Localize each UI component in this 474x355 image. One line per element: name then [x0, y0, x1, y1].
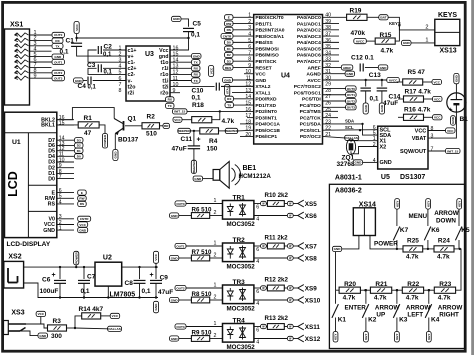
resistor R2 [125, 125, 142, 127]
net tag DALLAS [75, 327, 108, 330]
svg-text:PD0/RXD: PD0/RXD [255, 97, 277, 103]
svg-text:AGND: AGND [306, 72, 321, 78]
svg-text:R15: R15 [380, 32, 392, 39]
svg-text:0,1: 0,1 [81, 288, 90, 295]
svg-text:D1: D1 [77, 149, 81, 153]
svg-text:OUT0: OUT0 [176, 202, 185, 206]
svg-text:XTAL2: XTAL2 [255, 84, 270, 90]
svg-text:OUT1: OUT1 [176, 244, 185, 248]
svg-text:SDA: SDA [345, 119, 354, 124]
svg-text:R24: R24 [438, 238, 450, 245]
svg-text:1: 1 [248, 13, 251, 19]
svg-text:PD1/TXD: PD1/TXD [255, 103, 276, 109]
svg-text:2: 2 [119, 51, 122, 57]
svg-text:GND: GND [455, 74, 459, 82]
svg-text:R17 4.7k: R17 4.7k [405, 89, 432, 96]
optocoupler TR1 MOC3052 [223, 201, 254, 220]
svg-text:LEFT: LEFT [407, 312, 423, 319]
svg-text:4: 4 [59, 199, 62, 205]
svg-text:C8: C8 [125, 280, 134, 287]
svg-text:RIGHT: RIGHT [439, 312, 459, 319]
svg-text:U4: U4 [281, 73, 290, 80]
svg-text:OUT2: OUT2 [347, 99, 356, 103]
svg-text:XS6: XS6 [305, 213, 317, 220]
svg-text:6: 6 [119, 76, 122, 82]
svg-text:4.7k: 4.7k [438, 295, 451, 302]
net tags OUT0-OUT3 on U4 [323, 87, 346, 89]
net tag OUT2 opto input [175, 285, 186, 290]
net tag RX pin14 [225, 96, 234, 101]
svg-text:E: E [81, 191, 83, 195]
svg-text:D0: D0 [77, 155, 81, 159]
svg-text:Q1: Q1 [128, 116, 137, 123]
svg-text:KEY: KEY [395, 200, 399, 207]
svg-text:2: 2 [248, 19, 251, 25]
svg-text:BEEPER: BEEPER [192, 160, 196, 173]
svg-text:GND: GND [451, 116, 455, 124]
ground tag keypad [332, 246, 341, 251]
net tags on LCD control pins [78, 190, 87, 195]
IC U3 MAX232 [126, 46, 170, 101]
ground tag speaker [193, 176, 203, 181]
switch K3 [396, 289, 398, 291]
wire PD6 row [240, 135, 254, 137]
svg-text:4.7k: 4.7k [374, 295, 387, 302]
svg-text:r2i: r2i [128, 91, 135, 97]
capacitor C4 [74, 78, 84, 83]
svg-text:XS11: XS11 [305, 324, 321, 331]
U4 ADC stub wires [323, 23, 340, 25]
wire XTAL2 row [221, 85, 254, 87]
svg-text:R3: R3 [53, 318, 62, 325]
svg-text:510: 510 [146, 131, 157, 138]
svg-text:R16 4.7k: R16 4.7k [404, 107, 431, 114]
svg-text:v+: v+ [128, 54, 134, 60]
svg-text:VCC: VCC [154, 253, 158, 260]
net tag OUT0 opto input [175, 201, 186, 206]
svg-text:GND: GND [334, 247, 342, 251]
svg-text:1: 1 [425, 38, 428, 44]
net tags RX TX mid [166, 97, 175, 102]
svg-text:KEYS: KEYS [438, 12, 457, 19]
svg-text:R18: R18 [192, 102, 204, 109]
svg-text:1: 1 [119, 45, 122, 51]
svg-text:VCC: VCC [415, 128, 427, 134]
ground tag U5 pin4 [353, 160, 362, 165]
svg-text:24: 24 [325, 113, 331, 119]
svg-text:BKL1: BKL1 [41, 123, 55, 129]
svg-text:PC4/TDO: PC4/TDO [300, 103, 321, 109]
svg-text:POWER: POWER [374, 241, 398, 248]
connector XS6 [298, 212, 317, 220]
svg-text:4.7k: 4.7k [437, 254, 450, 261]
svg-text:16: 16 [173, 45, 179, 51]
svg-text:AREF: AREF [343, 66, 352, 70]
svg-text:5: 5 [248, 38, 251, 44]
svg-text:RW: RW [79, 197, 84, 201]
resistor R25 [403, 246, 423, 252]
svg-text:XS7: XS7 [305, 244, 317, 251]
svg-text:BD137: BD137 [118, 137, 139, 144]
connector XS9 [298, 285, 317, 293]
capacitor C9 47uF [155, 267, 157, 279]
svg-text:PB2/INT2/A0: PB2/INT2/A0 [255, 28, 284, 34]
svg-text:RS: RS [80, 202, 84, 206]
svg-text:15: 15 [59, 120, 65, 126]
net tags on LCD data pins [75, 138, 84, 143]
wire opto pin4 [254, 299, 288, 301]
power tag VCC vertical [153, 251, 158, 263]
svg-text:7: 7 [119, 82, 122, 88]
capacitor C11 [193, 131, 195, 146]
net tag VCC small [173, 117, 182, 122]
power tag POWER vertical [74, 251, 79, 264]
svg-text:+: + [150, 272, 154, 279]
svg-text:XTAL: XTAL [225, 86, 229, 94]
net tag INIT_15 [173, 109, 188, 114]
svg-text:6: 6 [256, 247, 259, 253]
resistor R14 [75, 316, 82, 328]
svg-text:KEY: KEY [427, 333, 431, 340]
svg-text:U5: U5 [381, 174, 390, 181]
resistor R19 [323, 16, 347, 18]
svg-text:6: 6 [256, 289, 259, 295]
net tag TX pin15 [225, 102, 234, 107]
wire ground rail [24, 283, 158, 298]
svg-text:5: 5 [119, 70, 122, 76]
svg-text:0,1: 0,1 [191, 32, 200, 39]
resistor R18 [182, 119, 192, 121]
svg-text:8: 8 [431, 126, 434, 132]
net tag OUT0 [52, 32, 65, 37]
svg-text:3: 3 [431, 134, 434, 140]
resistor R15 [354, 39, 367, 44]
svg-text:XTAL1: XTAL1 [255, 90, 270, 96]
svg-text:E: E [228, 16, 230, 20]
svg-text:6: 6 [248, 44, 251, 50]
wire matrix right side [456, 249, 462, 290]
svg-text:470k: 470k [351, 30, 366, 37]
svg-text:RW: RW [226, 22, 231, 26]
svg-text:RES: RES [225, 66, 231, 70]
svg-text:7: 7 [248, 50, 251, 56]
svg-text:12: 12 [245, 82, 251, 88]
connector XS8 [298, 255, 317, 263]
optocoupler TR3 MOC3052 [223, 285, 254, 304]
svg-text:AVCC: AVCC [356, 39, 365, 43]
svg-text:300: 300 [51, 333, 62, 340]
net tag BEEPER right [225, 128, 238, 133]
connector XS12 [298, 335, 321, 343]
svg-text:C1: C1 [66, 38, 75, 45]
svg-text:LM7805: LM7805 [110, 292, 136, 299]
resistor R11 2k2 [254, 245, 261, 247]
net tag TX [52, 43, 63, 48]
optocoupler TR4 MOC3052 [223, 324, 254, 343]
svg-text:SQW/OUT: SQW/OUT [400, 149, 427, 155]
wire BKL2 to Q1 collector [57, 108, 114, 120]
svg-text:R2: R2 [147, 114, 156, 121]
svg-text:36: 36 [325, 38, 331, 44]
svg-text:PC1/SDA: PC1/SDA [300, 122, 322, 128]
svg-text:XS13: XS13 [440, 48, 457, 55]
svg-text:PB1/T1: PB1/T1 [255, 21, 272, 27]
svg-text:150: 150 [207, 146, 218, 153]
svg-text:39: 39 [325, 19, 331, 25]
svg-text:2: 2 [214, 333, 217, 339]
resistor R6 510 [170, 213, 179, 218]
svg-text:KEY: KEY [426, 200, 430, 207]
crystal ZQ1 32768 [351, 141, 378, 143]
svg-text:K6: K6 [431, 227, 440, 234]
svg-text:K1: K1 [338, 317, 347, 324]
resistor R3 [48, 325, 67, 331]
svg-text:PC5/TDI: PC5/TDI [302, 97, 321, 103]
svg-text:4.7k: 4.7k [343, 295, 356, 302]
svg-text:BR: BR [164, 124, 169, 128]
net tag OUT1 [52, 59, 65, 64]
svg-text:AVCC: AVCC [389, 78, 398, 82]
svg-text:SCL: SCL [345, 125, 354, 130]
svg-text:C5: C5 [193, 21, 202, 28]
svg-text:LCD-DISPLAY: LCD-DISPLAY [7, 241, 51, 248]
svg-text:XS10: XS10 [305, 298, 321, 305]
svg-text:VCC: VCC [79, 223, 86, 227]
svg-text:0,1: 0,1 [88, 85, 97, 91]
svg-text:C3: C3 [87, 62, 96, 69]
svg-text:ARROW: ARROW [434, 210, 459, 217]
svg-text:37: 37 [325, 32, 331, 38]
svg-text:R4: R4 [209, 138, 218, 145]
svg-text:GND: GND [380, 104, 384, 112]
svg-text:R5 47: R5 47 [408, 69, 426, 76]
svg-text:GND: GND [364, 104, 368, 112]
svg-text:0,1: 0,1 [142, 288, 151, 295]
svg-text:R1: R1 [84, 115, 93, 122]
net tag GND [52, 54, 64, 59]
svg-text:34: 34 [325, 50, 331, 56]
wire U3 pin16 to VCC rail [170, 38, 189, 50]
svg-text:C10: C10 [192, 88, 204, 95]
svg-text:38: 38 [325, 25, 331, 31]
svg-text:BE1: BE1 [243, 165, 257, 172]
net tag BEEPER vertical [191, 160, 196, 174]
svg-text:D3: D3 [227, 59, 231, 63]
svg-text:KEY: KEY [395, 333, 399, 340]
svg-text:RS: RS [48, 202, 56, 208]
svg-text:GND: GND [171, 298, 179, 302]
svg-text:CNTR: CNTR [80, 217, 89, 221]
svg-text:PA3/ADC3: PA3/ADC3 [297, 34, 321, 40]
svg-text:47uF: 47uF [383, 100, 398, 107]
resistor R20 [339, 287, 360, 293]
svg-text:v-: v- [128, 78, 133, 84]
svg-text:OUT3: OUT3 [54, 77, 63, 81]
svg-text:PD3/INT1: PD3/INT1 [255, 115, 277, 121]
svg-text:1: 1 [214, 241, 217, 247]
wire 5V rail [122, 266, 158, 268]
svg-text:8: 8 [248, 57, 251, 63]
svg-text:GND: GND [154, 303, 158, 311]
svg-text:R9 510: R9 510 [192, 330, 213, 337]
U3 right pin wires [170, 55, 191, 57]
svg-text:VCC: VCC [209, 67, 213, 74]
svg-text:U2: U2 [103, 255, 112, 262]
wire power input rail [24, 266, 95, 268]
module box A8036-2 [329, 184, 464, 348]
svg-text:C11: C11 [181, 136, 193, 143]
svg-text:GND: GND [224, 78, 232, 82]
svg-text:47uF: 47uF [158, 289, 173, 296]
svg-text:c2+: c2+ [128, 66, 137, 72]
svg-text:ARROW: ARROW [438, 305, 463, 312]
svg-text:PD2/INT0: PD2/INT0 [255, 109, 277, 115]
svg-text:C13: C13 [369, 72, 381, 79]
svg-text:B1: B1 [460, 116, 469, 123]
svg-text:PC0/SCL: PC0/SCL [300, 128, 321, 134]
net tag DALLAS pin21 [323, 136, 345, 138]
svg-text:CNTR: CNTR [223, 34, 232, 38]
connector XS11 [298, 323, 321, 331]
resistor R22 [402, 287, 423, 293]
capacitor C14 [381, 80, 383, 87]
svg-text:2: 2 [373, 142, 376, 148]
net tag OUT3 [52, 76, 65, 81]
connector XS10 [298, 297, 321, 305]
svg-text:OUT2: OUT2 [176, 286, 185, 290]
capacitor C7 [83, 267, 85, 279]
svg-text:XS2: XS2 [8, 254, 21, 261]
switch K5 ARROW DOWN [457, 199, 462, 210]
svg-text:PB5/MOSI: PB5/MOSI [255, 46, 279, 52]
svg-text:OUT3: OUT3 [347, 106, 356, 110]
capacitor C5 [172, 16, 182, 21]
svg-text:C2: C2 [104, 44, 113, 51]
connector XS5 [298, 200, 317, 208]
resistor R23 [434, 287, 455, 293]
svg-text:11: 11 [246, 75, 251, 81]
svg-text:r1o: r1o [160, 72, 169, 78]
svg-text:1: 1 [214, 198, 217, 204]
svg-text:r2o: r2o [160, 91, 169, 97]
connector XS7 [298, 243, 317, 251]
wire SDA net [323, 123, 363, 125]
svg-text:MOC3052: MOC3052 [227, 221, 256, 228]
switch K6 MENU [426, 199, 431, 210]
svg-text:XS8: XS8 [305, 256, 317, 263]
svg-text:VCC: VCC [38, 312, 45, 316]
svg-text:GND: GND [173, 17, 181, 21]
resistor R13 2k2 [254, 326, 261, 328]
svg-text:33: 33 [325, 57, 331, 63]
resistor R21 [370, 287, 391, 293]
wire PD5 row [240, 123, 254, 125]
svg-text:BEEPER: BEEPER [225, 129, 238, 133]
voltage regulator U2 LM7805 [95, 262, 122, 286]
svg-text:23: 23 [325, 119, 331, 125]
svg-text:BEEPER: BEEPER [178, 129, 191, 133]
svg-text:17: 17 [245, 113, 251, 119]
svg-text:INIT_15: INIT_15 [447, 149, 458, 153]
svg-text:29: 29 [325, 82, 331, 88]
svg-text:GND: GND [355, 161, 363, 165]
svg-text:22: 22 [325, 126, 331, 132]
svg-text:1: 1 [214, 321, 217, 327]
wire opto pin4 [254, 215, 288, 217]
svg-text:VBAT: VBAT [412, 136, 427, 142]
svg-text:0,1: 0,1 [370, 96, 379, 103]
svg-text:VCC: VCC [434, 97, 441, 101]
svg-text:MENU: MENU [409, 213, 428, 220]
svg-text:t2i: t2i [162, 84, 169, 90]
svg-text:PC6/TOSC1: PC6/TOSC1 [294, 90, 321, 96]
svg-text:2: 2 [214, 253, 217, 259]
svg-text:ENTER: ENTER [345, 305, 367, 312]
svg-text:AVCC: AVCC [307, 78, 321, 84]
svg-text:GND: GND [255, 78, 266, 84]
svg-text:PD4/OC1A: PD4/OC1A [255, 122, 280, 128]
svg-text:GND: GND [39, 334, 47, 338]
svg-text:4: 4 [256, 259, 259, 265]
svg-text:PD6/ICP1: PD6/ICP1 [255, 134, 277, 140]
power tag VCC [74, 22, 79, 34]
svg-text:D3: D3 [77, 139, 81, 143]
svg-text:1: 1 [59, 226, 62, 232]
svg-text:PA2/ADC2: PA2/ADC2 [297, 28, 321, 34]
svg-text:GND: GND [171, 337, 179, 341]
svg-text:C12 0.1: C12 0.1 [351, 55, 374, 62]
svg-text:PB3/OC0/A1: PB3/OC0/A1 [255, 34, 284, 40]
svg-text:0,1: 0,1 [104, 70, 113, 76]
net tag OUT3 opto input [175, 324, 186, 329]
svg-text:POWER: POWER [74, 251, 78, 263]
svg-text:47uF: 47uF [172, 146, 187, 153]
svg-text:3: 3 [248, 25, 251, 31]
ground tag XS3 [38, 333, 48, 338]
svg-text:R10 2k2: R10 2k2 [265, 192, 289, 199]
svg-text:R8 510: R8 510 [192, 291, 213, 298]
svg-text:14: 14 [245, 94, 251, 100]
svg-text:9: 9 [248, 63, 251, 69]
capacitor C8 [139, 267, 141, 279]
svg-text:47: 47 [84, 130, 92, 137]
svg-text:GND: GND [171, 214, 179, 218]
svg-text:2: 2 [425, 25, 428, 31]
switch K1 [335, 290, 337, 304]
LCD module U1 [5, 112, 57, 237]
U4 left control tags [225, 15, 234, 20]
svg-text:4: 4 [119, 64, 122, 70]
svg-text:100uF: 100uF [40, 288, 59, 295]
svg-text:RESET: RESET [255, 65, 271, 71]
svg-text:PC2/TCK: PC2/TCK [300, 115, 321, 121]
speaker BE1 HCM1212A [213, 170, 220, 181]
svg-text:UP: UP [376, 312, 385, 319]
svg-text:VCC: VCC [174, 118, 181, 122]
resistor R9 510 [170, 336, 179, 341]
svg-text:10: 10 [245, 69, 251, 75]
svg-text:PC7/TOSC2: PC7/TOSC2 [294, 84, 321, 90]
svg-text:VCC: VCC [434, 116, 441, 120]
capacitor C10 [170, 86, 215, 88]
svg-text:PA7/ADC7: PA7/ADC7 [297, 59, 321, 65]
svg-text:OUT1: OUT1 [54, 60, 63, 64]
svg-text:6: 6 [256, 205, 259, 211]
ground tag below C14 [379, 103, 384, 114]
svg-text:PA4/ADC4: PA4/ADC4 [297, 40, 321, 46]
svg-text:2: 2 [214, 210, 217, 216]
svg-text:2: 2 [214, 295, 217, 301]
